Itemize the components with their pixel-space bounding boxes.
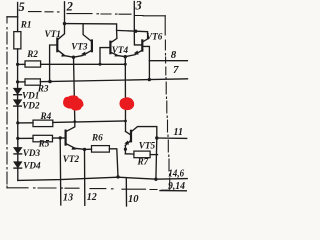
svg-text:R6: R6 (91, 132, 103, 142)
svg-text:11: 11 (174, 126, 184, 138)
svg-text:VD2: VD2 (22, 101, 40, 111)
svg-text:VT6: VT6 (146, 32, 163, 42)
svg-text:12: 12 (87, 191, 97, 203)
svg-text:R7: R7 (137, 156, 149, 166)
svg-text:VT1: VT1 (45, 29, 61, 39)
svg-text:VD1: VD1 (22, 91, 39, 101)
svg-text:10: 10 (128, 193, 139, 205)
svg-text:5: 5 (19, 0, 25, 14)
svg-text:VD3: VD3 (23, 148, 41, 158)
svg-text:8: 8 (171, 49, 177, 61)
svg-text:R1: R1 (20, 19, 32, 29)
svg-text:13: 13 (63, 192, 74, 204)
svg-text:VT2: VT2 (63, 154, 80, 164)
svg-text:R4: R4 (40, 111, 52, 121)
svg-text:14,6: 14,6 (168, 168, 184, 179)
svg-text:R2: R2 (26, 49, 38, 59)
svg-text:2: 2 (66, 0, 73, 14)
svg-text:VT5: VT5 (139, 140, 156, 150)
svg-text:9,14: 9,14 (168, 181, 185, 192)
svg-text:VT4: VT4 (112, 45, 129, 55)
svg-text:VD4: VD4 (23, 160, 41, 170)
svg-text:7: 7 (173, 64, 179, 76)
svg-text:VT3: VT3 (71, 42, 88, 52)
svg-text:3: 3 (135, 0, 142, 13)
